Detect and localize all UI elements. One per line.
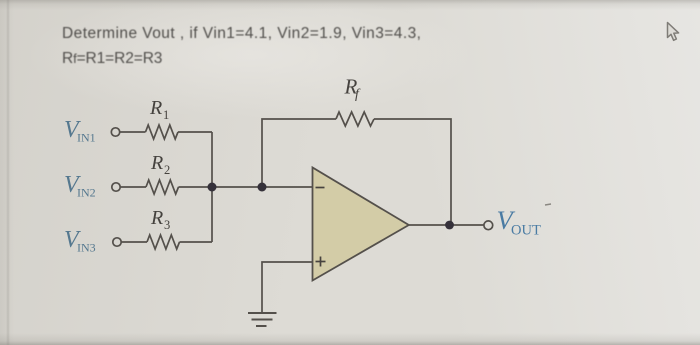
node junction dot A (208, 183, 217, 192)
terminal VIN1 (111, 128, 119, 136)
resistor R2 (146, 180, 179, 194)
svg-text:3: 3 (164, 218, 170, 232)
svg-text:IN3: IN3 (77, 241, 96, 255)
svg-text:IN2: IN2 (77, 186, 96, 200)
ground (248, 313, 277, 326)
wire to inverting node (179, 186, 313, 188)
label VOUT (497, 205, 541, 239)
stray mark (545, 204, 551, 205)
label R2 (150, 152, 170, 177)
svg-text:R: R (149, 97, 162, 119)
resistor R1 (146, 125, 179, 139)
resistor R3 (147, 235, 180, 249)
svg-text:2: 2 (164, 163, 170, 177)
label VIN1 (64, 117, 96, 145)
svg-text:f: f (355, 87, 361, 102)
svg-text:R: R (150, 207, 163, 229)
label VIN2 (64, 172, 96, 200)
wire (120, 131, 146, 133)
label Rf (344, 75, 362, 103)
wire feedback left vertical (262, 119, 336, 187)
problem text line 2 (62, 50, 162, 68)
wire (180, 241, 213, 243)
label VIN3 (64, 227, 96, 255)
op-amp plus pin (316, 257, 326, 267)
svg-text:IN1: IN1 (77, 131, 96, 145)
terminal VIN3 (113, 238, 121, 246)
label R1 (149, 97, 169, 122)
wire noninverting input (262, 262, 313, 313)
wire feedback right (374, 119, 451, 225)
op-amp minus pin (316, 187, 325, 189)
svg-text:OUT: OUT (511, 223, 541, 239)
op-amp U1 (313, 168, 409, 281)
wire (178, 131, 212, 133)
wire vertical bus (211, 132, 213, 242)
wire (121, 241, 147, 243)
svg-text:R: R (150, 152, 163, 174)
node inverting input dot (258, 183, 267, 192)
label R3 (150, 207, 170, 232)
wire output (409, 224, 484, 226)
terminal VOUT (484, 221, 493, 230)
terminal VIN2 (112, 183, 120, 191)
resistor Rf (336, 112, 374, 126)
node output dot (445, 221, 454, 230)
wire (120, 186, 146, 188)
problem text line 1 (62, 25, 421, 43)
mouse cursor (668, 23, 679, 41)
svg-text:1: 1 (163, 108, 169, 122)
